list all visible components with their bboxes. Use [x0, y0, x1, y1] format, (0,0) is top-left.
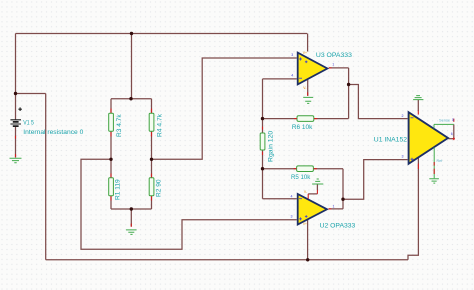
wire U3 -in column down to U2 -in: [263, 79, 297, 199]
svg-text:U3 OPA333: U3 OPA333: [316, 52, 352, 59]
wire U3 out to U1 pin2: [349, 85, 408, 119]
bridge ground pin stub: [130, 224, 132, 227]
U1 ref lead (green): [433, 148, 435, 179]
Rgain pin stubs: [262, 127, 264, 155]
ground below bridge: [126, 230, 137, 235]
wire U1 output stub: [448, 138, 454, 140]
R6 pin stubs: [294, 118, 317, 120]
svg-text:R3 4.7k: R3 4.7k: [116, 114, 123, 137]
resistor R2: [149, 178, 162, 197]
R5 pin stubs: [294, 168, 317, 170]
U3 V- pin stub: [307, 92, 309, 96]
node U3 out: [347, 83, 350, 86]
wire R5 leads: [263, 168, 344, 170]
svg-text:3: 3: [291, 214, 293, 218]
wire R6 riser to U3 output: [329, 68, 349, 119]
wire bridge bottom bar: [111, 208, 152, 210]
svg-text:R6 10k: R6 10k: [292, 124, 313, 131]
resistor Rgain: [260, 130, 274, 162]
svg-text:2: 2: [402, 114, 404, 118]
R1 pin stubs: [110, 174, 112, 201]
U1 sense pin stub: [453, 119, 455, 122]
node bridge bottom: [130, 207, 133, 210]
op-amp U3 OPA333: [298, 51, 352, 90]
node bridge left: [109, 158, 112, 161]
svg-text:R5 10k: R5 10k: [291, 174, 311, 181]
wire bridge right node to U3 +in: [152, 58, 297, 159]
U1 sense loop (green): [434, 124, 454, 128]
wire top rail: [16, 33, 308, 35]
svg-text:1: 1: [332, 62, 334, 66]
node R6 left: [261, 117, 264, 120]
svg-text:Ref: Ref: [437, 159, 443, 163]
svg-text:1: 1: [333, 205, 335, 209]
svg-text:R1 119: R1 119: [115, 179, 122, 200]
U2 output pin stub: [328, 208, 331, 210]
svg-text:V+: V+: [303, 51, 307, 55]
wire U1 V+ stub: [417, 100, 419, 111]
svg-text:6: 6: [451, 132, 453, 136]
node U2 out: [341, 198, 344, 201]
resistor R6: [292, 116, 314, 131]
svg-text:4: 4: [291, 74, 293, 78]
wire R1 leads: [110, 159, 112, 209]
U1 output pin end: [452, 137, 455, 140]
ground below battery: [10, 158, 22, 163]
resistor R4: [149, 113, 163, 137]
wire battery node to x46 column: [16, 93, 46, 95]
U1 V+ pin stub: [417, 111, 419, 115]
node top rail junction: [130, 32, 133, 35]
svg-text:Sense: Sense: [439, 118, 450, 122]
red pin stubs: [16, 68, 455, 227]
svg-text:3: 3: [291, 53, 293, 57]
pin numbers: [291, 53, 455, 219]
R3 pin stubs: [110, 109, 112, 137]
wire R5 drop to U2 output: [329, 169, 343, 209]
wire bridge left node to U2 +in: [81, 159, 297, 249]
wire U3 V+ stub: [307, 34, 309, 52]
wire R2 leads: [151, 159, 153, 209]
wire U1 sense output riser: [453, 124, 455, 138]
R2 pin stubs: [151, 174, 153, 201]
wire U2 out to U1 pin3: [343, 160, 408, 200]
R4 pin stubs: [151, 109, 153, 137]
node bridge top: [129, 97, 132, 100]
ground below U3: [303, 97, 313, 103]
svg-text:R4 4.7k: R4 4.7k: [157, 113, 164, 137]
op-amp U1 INA152: [374, 112, 448, 164]
ground above U1 (inverted): [413, 96, 423, 100]
wire U2 V+ drop to bottom rail: [307, 220, 309, 260]
U1 V- pin stub: [417, 164, 419, 169]
U2 ground pin stubs: [308, 190, 317, 199]
svg-text:U2 OPA333: U2 OPA333: [320, 223, 356, 230]
svg-text:Internal resistance 0: Internal resistance 0: [23, 129, 83, 136]
resistor R5: [291, 166, 313, 181]
wire R6 leads: [263, 118, 349, 120]
op-amp U2 OPA333: [298, 190, 356, 230]
wire U3 V- stub: [307, 80, 309, 96]
svg-text:V+: V+: [303, 222, 307, 226]
svg-text:V-: V-: [304, 190, 307, 194]
U1 ref pin stubs: [433, 162, 435, 174]
wire bottom rail: [46, 259, 408, 261]
node R5 left: [261, 167, 264, 170]
wire R3 leads: [110, 99, 112, 160]
ground above U2 (inverted): [312, 179, 323, 184]
node bottom rail: [306, 258, 309, 261]
wire R4 leads: [151, 99, 153, 160]
wire bridge ground stub: [130, 209, 132, 227]
wire bridge top drop: [131, 34, 133, 99]
ground below U1 ref: [429, 179, 439, 183]
resistor R1: [109, 178, 122, 200]
svg-text:U1 INA152: U1 INA152: [374, 137, 407, 144]
wire bottom jog up to U1 V-: [408, 158, 418, 260]
battery V1: [10, 107, 22, 126]
wire x46 column down: [45, 94, 47, 260]
node bridge right: [150, 158, 153, 161]
battery pin stubs: [15, 136, 17, 157]
svg-text:4: 4: [291, 194, 293, 198]
svg-text:V-: V-: [303, 86, 306, 90]
svg-text:3: 3: [402, 155, 404, 159]
wire battery bottom lead: [15, 127, 17, 158]
wire bridge top bar: [111, 98, 152, 100]
wire left rail to battery: [15, 34, 17, 120]
svg-text:Rgain 120: Rgain 120: [267, 130, 274, 162]
svg-text:R2 90: R2 90: [155, 179, 162, 197]
resistor R3: [109, 113, 123, 137]
svg-text:V1 5: V1 5: [23, 119, 34, 126]
node battery junction: [14, 92, 17, 95]
wire U2 V- ground jog: [308, 184, 317, 194]
battery V1 label: [23, 119, 83, 136]
svg-text:5: 5: [452, 118, 454, 122]
U3 output pin stub: [329, 67, 332, 69]
